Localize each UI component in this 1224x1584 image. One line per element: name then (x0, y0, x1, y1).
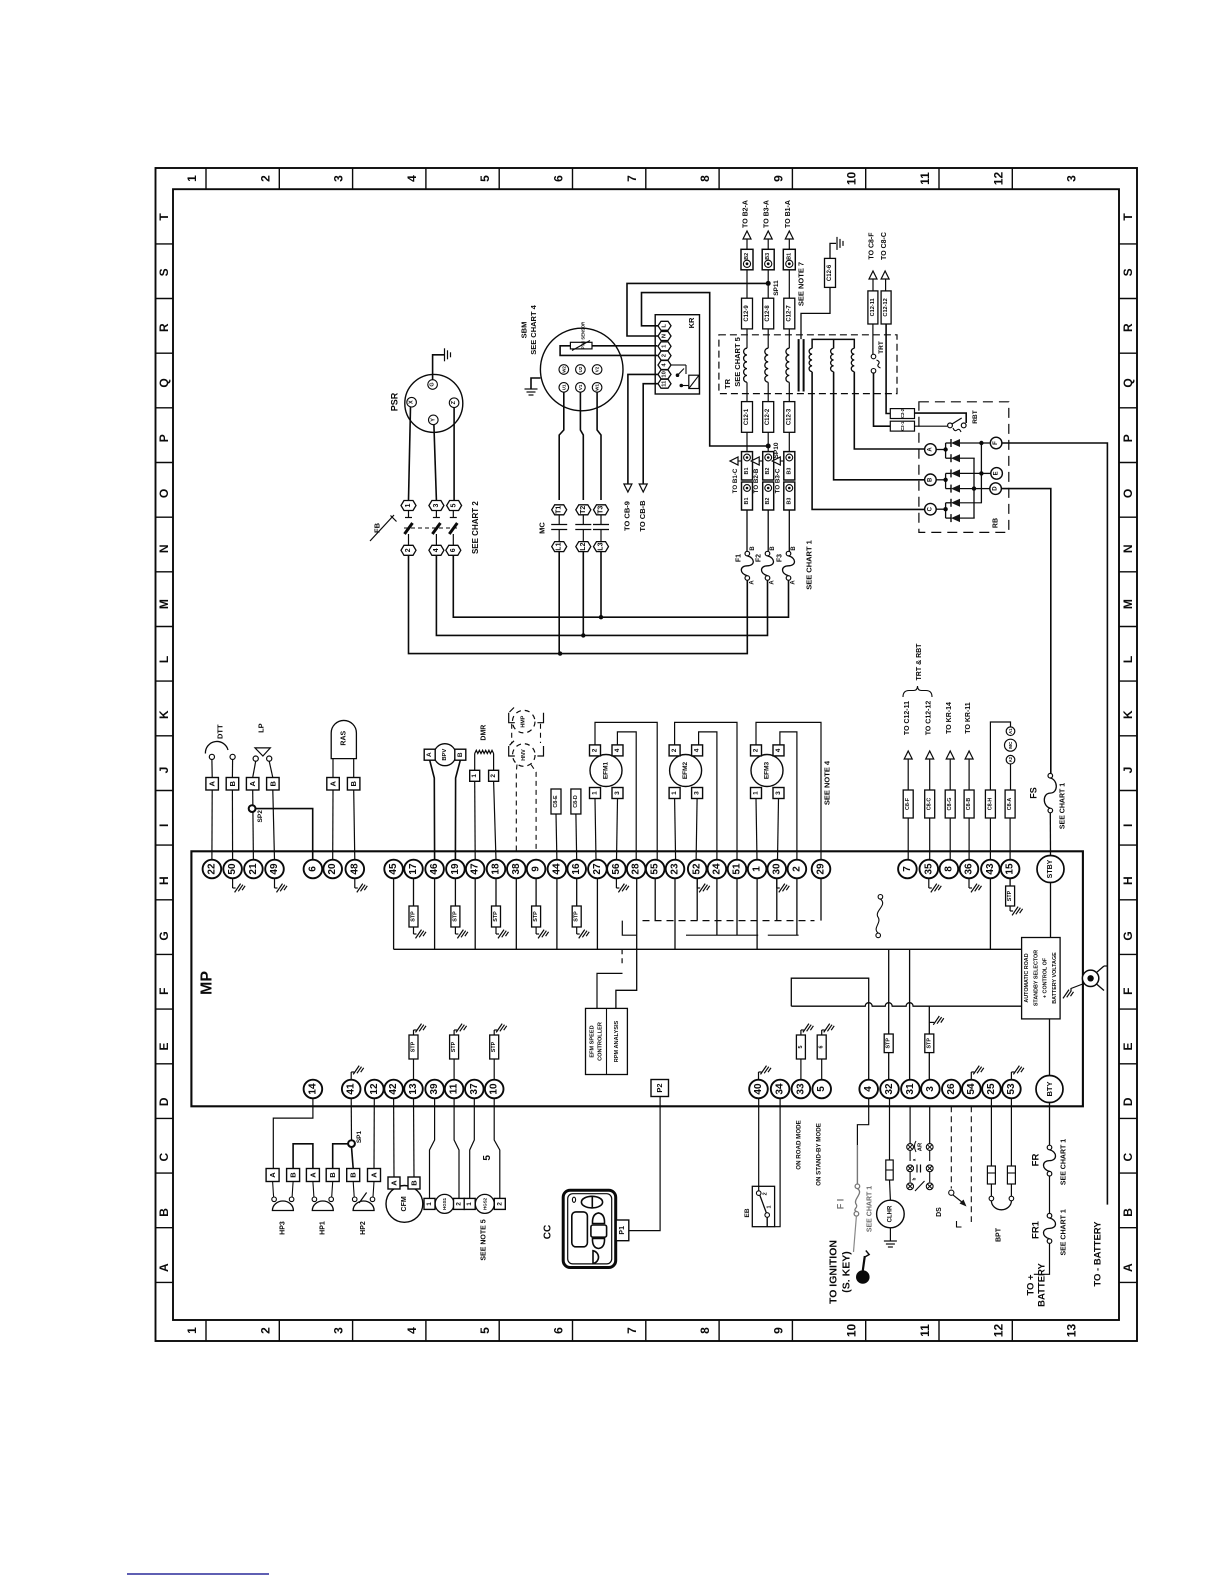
fuse holder (886, 1160, 893, 1180)
svg-text:EB: EB (744, 1208, 751, 1217)
svg-text:13: 13 (1065, 1324, 1079, 1338)
terminal 2 (788, 860, 807, 879)
svg-text:C12-11: C12-11 (870, 298, 876, 316)
svg-text:Q: Q (157, 378, 171, 387)
svg-text:2: 2 (456, 1202, 463, 1206)
svg-text:SEE CHART 1: SEE CHART 1 (805, 540, 814, 590)
pin 2 DMR (493, 754, 495, 771)
node SP1 (348, 1140, 355, 1147)
terminal 27 (588, 860, 607, 879)
svg-text:9: 9 (531, 866, 542, 872)
wire coil to C12-2 (767, 382, 769, 401)
node SP10 (766, 444, 771, 449)
connector C12-9 (742, 298, 753, 329)
arrow TO C8-F (869, 271, 877, 279)
svg-text:T: T (1121, 213, 1135, 221)
svg-text:35: 35 (923, 863, 934, 875)
pin A LP (246, 778, 259, 791)
svg-text:B: B (328, 1172, 337, 1178)
svg-text:B: B (750, 546, 756, 551)
svg-text:T2: T2 (580, 506, 587, 514)
pin A CFM (388, 1177, 400, 1189)
svg-text:PTC SENSOR: PTC SENSOR (581, 322, 586, 349)
svg-text:E: E (1121, 1042, 1135, 1050)
terminal 33 (792, 1080, 811, 1099)
pin B HP3 (287, 1169, 300, 1182)
diode C upper (951, 499, 960, 507)
ground at C12-6 (836, 237, 838, 250)
pin 2 EFM1 (590, 745, 601, 756)
pin 3 EFM2 (692, 788, 703, 799)
diode B upper (951, 469, 960, 477)
svg-text:1: 1 (185, 1327, 199, 1334)
pin 2 HGS1 (454, 1198, 465, 1209)
arrow TO B1-A (785, 231, 793, 239)
terminal 7 (898, 860, 917, 879)
wire TRT to C2-1 (874, 373, 891, 426)
ignition key symbol (856, 1270, 870, 1284)
svg-text:V2: V2 (595, 366, 600, 372)
wire PSR Z to pin 5 (453, 408, 455, 501)
wire L2 down (582, 552, 584, 636)
svg-text:A: A (208, 781, 217, 787)
svg-text:SEE CHART 1: SEE CHART 1 (1059, 783, 1066, 829)
wire LP B (269, 761, 273, 777)
svg-text:STP: STP (926, 1038, 932, 1049)
fuse F3 (786, 551, 791, 556)
resistor STP (413, 1059, 415, 1080)
svg-text:I: I (157, 824, 171, 827)
svg-text:B: B (791, 546, 797, 551)
ground (824, 1024, 830, 1033)
ground (350, 1072, 352, 1080)
wire C to diode pair (936, 508, 945, 510)
wire 3 riser (928, 1006, 930, 1034)
svg-text:3: 3 (614, 791, 621, 795)
svg-text:TO B1-A: TO B1-A (785, 200, 792, 228)
svg-text:SEE NOTE 5: SEE NOTE 5 (481, 1219, 488, 1260)
svg-text:4: 4 (405, 1327, 419, 1334)
terminal 31 (901, 1080, 920, 1099)
pin A HP2 (368, 1169, 381, 1182)
wire U1 to T1 (559, 392, 564, 500)
svg-text:Q: Q (1121, 378, 1135, 387)
resistor STP (493, 1059, 495, 1080)
wire RAS B (353, 759, 355, 778)
wire PTC loop to KR pin 2 (560, 346, 657, 356)
PSR pin Y (429, 415, 439, 425)
fuse BPT 1 (990, 1098, 992, 1166)
terminal 16 (567, 860, 586, 879)
terminal 11 (445, 1080, 464, 1099)
terminal 21 (244, 860, 263, 879)
node L2 junction (581, 633, 585, 637)
arrow TO C12-11 (904, 751, 912, 759)
wire 1 down (756, 878, 758, 949)
svg-text:TR: TR (723, 378, 732, 389)
svg-text:40: 40 (753, 1083, 764, 1095)
svg-text:MP: MP (199, 971, 216, 995)
wire HP3 B to HP1 A (293, 1144, 313, 1169)
wire KR pin 10 to CB-9 arrow (628, 374, 658, 484)
wire terminal 4 to fuse F1 (857, 1098, 868, 1145)
terminal D (990, 483, 1002, 495)
wire 31 from bus (909, 949, 911, 1080)
connector C8-D (571, 789, 581, 814)
fuse F2 (765, 551, 770, 556)
svg-text:F: F (157, 988, 171, 995)
wire EFM1 pin2 (595, 722, 657, 860)
svg-text:D: D (993, 486, 999, 491)
connector C12-6 (825, 258, 836, 287)
svg-text:48: 48 (349, 863, 360, 875)
svg-text:E: E (994, 471, 1000, 475)
svg-text:2: 2 (258, 175, 272, 182)
svg-text:3: 3 (332, 1327, 346, 1334)
svg-text:MC: MC (538, 522, 547, 534)
svg-text:26: 26 (946, 1083, 957, 1095)
connector C12-12 (881, 291, 891, 324)
svg-text:32: 32 (884, 1083, 895, 1095)
svg-text:H: H (1121, 876, 1135, 885)
connector C2-1 (890, 421, 914, 431)
rectifier block RB dashed box (919, 402, 1009, 533)
svg-text:30: 30 (771, 863, 782, 875)
motor EFM2 (670, 755, 702, 787)
svg-text:SEE CHART 4: SEE CHART 4 (529, 304, 538, 354)
KR internal relay (689, 375, 699, 388)
svg-text:STP: STP (493, 911, 499, 922)
switch LP (255, 748, 270, 756)
switch FS jumper (878, 895, 883, 900)
svg-text:B: B (268, 781, 277, 787)
wire HNV to 9 dashed (531, 765, 536, 852)
svg-text:STP: STP (1007, 890, 1013, 901)
wire 28 to speed controller (616, 878, 637, 1008)
svg-text:5: 5 (478, 1327, 492, 1334)
wire B3 to fuse (788, 510, 790, 552)
svg-text:1: 1 (426, 1202, 433, 1206)
wire net4 to selector with hops (791, 1003, 1022, 1007)
svg-text:STP: STP (452, 911, 458, 922)
svg-text:2: 2 (753, 748, 760, 752)
svg-text:TRT: TRT (878, 341, 885, 354)
svg-text:SEE CHART 1: SEE CHART 1 (1060, 1209, 1067, 1255)
svg-text:A: A (791, 580, 797, 585)
pin 1 DMR (474, 754, 476, 771)
wire BPV B (455, 760, 460, 860)
svg-text:F3: F3 (777, 554, 784, 562)
wire EFM2 pin4 (699, 732, 717, 860)
svg-text:CLHR: CLHR (887, 1205, 893, 1222)
svg-text:18: 18 (491, 863, 502, 875)
svg-text:AUTOMATIC ROAD: AUTOMATIC ROAD (1024, 953, 1030, 1002)
svg-text:B3: B3 (765, 253, 771, 260)
svg-text:6: 6 (552, 1327, 566, 1334)
pin A BPV (424, 749, 435, 760)
terminal battery sense (1082, 970, 1098, 986)
terminal 18 (487, 860, 506, 879)
svg-text:HP1: HP1 (319, 1221, 326, 1235)
svg-text:PSR: PSR (390, 392, 400, 411)
svg-text:10: 10 (845, 1324, 859, 1338)
svg-text:6: 6 (307, 866, 318, 872)
svg-text:N: N (157, 544, 171, 553)
connector C8-B (964, 790, 974, 818)
svg-text:A: A (927, 447, 933, 452)
arrow TO CB-9 (624, 484, 632, 492)
svg-text:4: 4 (863, 1086, 874, 1092)
terminal 24 (708, 860, 727, 879)
svg-text:STP: STP (451, 1041, 457, 1052)
connector PSR (405, 374, 463, 432)
svg-text:BATTERY VOLTAGE: BATTERY VOLTAGE (1052, 952, 1058, 1004)
wire sense to battery negative (1104, 965, 1107, 967)
wire 32 to CLHR (889, 1098, 891, 1160)
svg-text:DTT: DTT (215, 724, 224, 739)
svg-text:1: 1 (753, 791, 760, 795)
wire rectifier bus 2 (973, 458, 975, 518)
wire EFM1 pin3 (617, 799, 618, 861)
svg-text:A: A (749, 580, 755, 585)
svg-text:8: 8 (698, 1327, 712, 1334)
transformer secondary coil 2 (831, 348, 834, 371)
svg-text:33: 33 (795, 1083, 806, 1095)
wire A2 to C8-A (1010, 764, 1012, 790)
terminal 32 (880, 1080, 899, 1099)
arrow TO C8-C (881, 271, 889, 279)
resistor STP (413, 878, 415, 906)
svg-text:11: 11 (918, 172, 932, 185)
svg-text:54: 54 (966, 1083, 977, 1095)
wire selector to BTY (1049, 1019, 1051, 1076)
wire 34 to EB (775, 1098, 781, 1227)
lamp RAS (331, 720, 356, 758)
wire FS to STBY (1049, 813, 1051, 856)
connector C12-3 (784, 402, 795, 433)
terminal 25 (982, 1080, 1001, 1099)
svg-text:STP: STP (533, 911, 539, 922)
svg-text:BPT: BPT (996, 1227, 1003, 1242)
svg-text:C12-6: C12-6 (827, 264, 833, 281)
svg-text:TO B2-B: TO B2-B (753, 468, 760, 493)
terminal 54 (962, 1080, 981, 1099)
pin 4 EFM1 (612, 745, 623, 756)
wire SP11 to KR N (627, 283, 768, 336)
svg-text:5: 5 (816, 1086, 827, 1092)
fuse BPT 2 (1010, 1098, 1012, 1166)
svg-text:FR: FR (1031, 1154, 1042, 1167)
svg-text:E: E (157, 1042, 171, 1050)
svg-text:D: D (157, 1097, 171, 1106)
svg-text:A: A (390, 1180, 399, 1186)
pin A DTT (206, 778, 219, 791)
arrow TO B1-C (730, 457, 738, 465)
pin B DTT (226, 778, 239, 791)
svg-text:2: 2 (405, 548, 412, 552)
wire 11 to HGS1 (454, 1098, 459, 1198)
svg-text:FB: FB (372, 522, 381, 533)
SBM pin U2 (576, 365, 586, 375)
svg-text:A: A (370, 1172, 379, 1178)
wire EFM3 pin3 (778, 799, 779, 861)
wire SP2 to 6 (256, 809, 313, 860)
pressure switch HP2 (353, 1182, 354, 1198)
connector C12-7 (784, 298, 795, 329)
pin T2 (576, 505, 591, 515)
wire C2-2 to RBT (915, 413, 967, 423)
resistor STP (576, 878, 578, 906)
svg-text:B: B (289, 1172, 298, 1178)
svg-text:3: 3 (433, 503, 440, 507)
terminal 51 (728, 860, 747, 879)
terminal 30 (768, 860, 787, 879)
ground (538, 930, 544, 939)
pin L3 (594, 542, 609, 552)
svg-text:b: b (912, 1177, 917, 1180)
svg-text:G: G (430, 382, 436, 386)
pin 6 (446, 545, 461, 555)
svg-text:LP: LP (257, 723, 266, 733)
connector C8-H (985, 790, 995, 818)
svg-text:3: 3 (1065, 175, 1079, 182)
wire DMR 1 (474, 781, 477, 860)
ground (232, 878, 234, 888)
contactor coil A2 (1006, 755, 1015, 764)
svg-text:19: 19 (450, 863, 461, 875)
terminal E (991, 468, 1003, 480)
svg-text:C12-7: C12-7 (786, 305, 792, 322)
transformer TR dashed box (719, 335, 897, 394)
wire secondary top bus (812, 339, 854, 348)
terminal 26 (942, 1080, 961, 1099)
wire HNV to 38 dashed (515, 765, 518, 852)
terminal 10 (485, 1080, 504, 1099)
wire C8-E to 44 (555, 814, 558, 860)
svg-text:2: 2 (671, 748, 678, 752)
terminal C (925, 503, 937, 515)
terminal box B2 A (763, 452, 774, 480)
svg-text:3: 3 (694, 791, 701, 795)
KR pin 10 (658, 370, 671, 379)
svg-text:STP: STP (574, 911, 580, 922)
connector C8-F (903, 790, 913, 818)
svg-text:A: A (770, 580, 776, 585)
svg-text:SEE CHART 5: SEE CHART 5 (733, 337, 742, 387)
wire PSR Y to pin 3 (434, 425, 437, 500)
PSR pin Z (449, 398, 459, 408)
KR pin L (658, 321, 671, 330)
terminal box B3 (762, 249, 774, 269)
svg-text:L1: L1 (556, 542, 563, 550)
svg-text:P1: P1 (619, 1226, 626, 1235)
node L3 junction (599, 615, 603, 619)
wire KR L to SP10 riser (642, 293, 769, 446)
svg-text:1: 1 (592, 791, 599, 795)
svg-text:2: 2 (496, 1202, 503, 1206)
connector C12-1 (742, 402, 753, 433)
wire 39 to HGS1 (430, 1098, 435, 1198)
svg-text:ON STAND-BY MODE: ON STAND-BY MODE (816, 1123, 823, 1186)
PTC sensor (570, 342, 592, 349)
contact slash (915, 1181, 925, 1191)
svg-text:1: 1 (405, 503, 412, 507)
terminal 39 (425, 1080, 444, 1099)
wire V1 to T2 (580, 392, 583, 500)
svg-text:B: B (228, 781, 237, 787)
svg-text:C8-E: C8-E (553, 795, 559, 808)
svg-text:EFM1: EFM1 (603, 761, 610, 779)
wire diode C lower out (960, 517, 975, 519)
wire C8-D to 16 (575, 814, 578, 860)
svg-text:B3: B3 (786, 468, 792, 475)
terminal 8 (940, 860, 959, 879)
diode B lower (951, 485, 960, 493)
svg-text:R: R (1121, 323, 1135, 332)
svg-text:B: B (927, 477, 933, 482)
frame grid number ticks top (205, 168, 207, 189)
svg-text:L: L (157, 656, 171, 663)
wire HP1 B to SP1 (333, 1144, 348, 1169)
svg-text:Y: Y (430, 418, 436, 422)
svg-text:K: K (157, 710, 171, 719)
svg-text:A: A (268, 1172, 277, 1178)
svg-text:SEE NOTE 4: SEE NOTE 4 (823, 760, 832, 805)
svg-text:4: 4 (614, 748, 621, 752)
wire fuse to key (854, 1216, 857, 1252)
frame grid letter ticks right (1119, 243, 1137, 245)
wire B2 to fuse (767, 510, 769, 552)
svg-text:10: 10 (489, 1083, 500, 1095)
connector C12-8 (763, 298, 774, 329)
svg-text:STP: STP (411, 911, 417, 922)
svg-text:47: 47 (470, 863, 481, 875)
footer underline (127, 1573, 269, 1575)
diode A lower (951, 454, 960, 462)
wire C12-6 ground (830, 243, 836, 258)
pin 2 EFM2 (669, 745, 680, 756)
motor EFM1 (590, 755, 622, 787)
wire diode B upper out (960, 472, 982, 474)
connector C8-E (551, 789, 561, 814)
wire C12-8 to primary coil (767, 329, 769, 348)
terminal 44 (548, 860, 567, 879)
svg-text:55: 55 (650, 863, 661, 875)
svg-text:FS: FS (1028, 787, 1038, 799)
svg-text:41: 41 (346, 1083, 357, 1095)
terminal box B1 (783, 249, 795, 269)
svg-text:11: 11 (662, 380, 668, 387)
svg-text:M: M (157, 599, 171, 609)
svg-text:5: 5 (798, 1046, 804, 1049)
svg-text:A: A (248, 781, 257, 787)
ground (354, 878, 356, 888)
wire W1 to T3 (597, 392, 601, 500)
svg-text:9: 9 (771, 1327, 785, 1334)
terminal 13 (404, 1080, 423, 1099)
svg-text:DS: DS (936, 1207, 943, 1217)
ground (776, 878, 778, 888)
sensor DTT (209, 754, 214, 759)
transformer primary coil C12-8 (765, 348, 768, 382)
svg-text:STP: STP (886, 1038, 892, 1049)
svg-text:AR: AR (918, 1142, 924, 1151)
svg-text:RBT: RBT (972, 410, 979, 423)
wire pin4 bus (436, 555, 767, 635)
svg-text:SEE CHART 1: SEE CHART 1 (1060, 1139, 1067, 1185)
svg-text:S: S (1121, 268, 1135, 276)
svg-text:24: 24 (711, 863, 722, 875)
